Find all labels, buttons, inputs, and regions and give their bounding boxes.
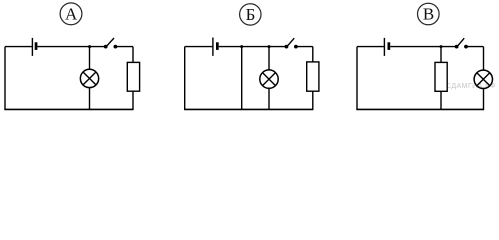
svg-text:В: В <box>423 5 434 24</box>
svg-text:Б: Б <box>246 5 256 24</box>
svg-text:А: А <box>65 5 78 24</box>
